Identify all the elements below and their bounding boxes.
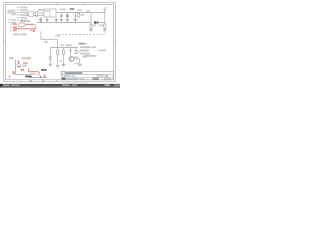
red arrowhead [33,30,35,32]
ground for LED branch [48,64,52,66]
output terminal branch [103,7,106,29]
dark text on bottom wire [25,76,32,78]
capacitor C2 [45,17,48,23]
mid rail label 2 [65,44,72,46]
red annotation underline [13,28,36,30]
red mod tick [17,60,19,63]
top rail wire [56,12,105,14]
red junction dot [18,66,19,67]
connector pin row 1 [17,7,27,9]
status bar dark [0,84,120,88]
fuse label text [38,9,44,11]
connector pin row 6 [17,19,27,21]
bottom row text extra [79,78,84,80]
red wire vertical right [28,68,30,72]
R2 label [59,60,62,62]
notes dash right [98,50,106,52]
component values text above rail 1 [59,9,66,11]
title block outline [61,71,113,79]
transformer label [45,10,49,12]
title block left column divider [62,71,64,79]
lower rail wire [36,22,90,24]
zone tick bottom 1 [29,80,31,82]
wire lower line to transformer [33,15,44,17]
bottom row text [66,78,77,80]
resistor R2 branch [57,48,59,66]
sheet frame inner border [6,5,114,80]
bottom row text 3 [105,78,111,80]
transformer centre divider [49,9,51,17]
wire from upper block down [41,31,58,47]
red mod wire vertical [17,60,19,64]
wire to fuse [33,12,36,14]
wire fuse to transformer [38,12,44,14]
status bar right lighter zone [114,84,120,88]
red dot on wire [40,76,42,78]
capacitor C3 [55,17,58,23]
stub from connector area to lower rail [41,17,43,23]
red hook mark [37,72,39,75]
R1 value text [93,25,96,27]
ground for output branch [103,30,107,32]
capacitor C1 [39,17,42,22]
bottom row divider [91,77,93,80]
note text below red 2 [20,33,26,35]
zone digit 4 [43,80,45,81]
notes text line 1 [79,43,85,45]
bottom row divider 2 [103,77,105,80]
status bar text left 2 [11,85,20,86]
AC input connector J [29,12,33,17]
notes text line 4 [80,53,90,55]
connector pin row 3 [17,12,28,14]
gray note text row above ellipse [20,20,30,22]
regulator U1 on rail [77,13,79,17]
transistor Q1 [69,57,74,62]
bottom left supply label [9,57,13,59]
gray note text right of ellipse [26,24,34,26]
caption smudge below sheet 2 [79,82,88,83]
gray text under red wire [30,73,36,75]
capacitor C4 [66,13,69,23]
title text row [65,72,83,74]
title block row divider 1 [61,73,113,75]
Q1 label [74,56,78,58]
component values text above rail 4 [86,10,91,12]
diode D1 vertical [60,13,63,23]
supply vertical wire [15,59,17,74]
status bar light mark right [105,84,110,86]
component values text above rail 2 [70,8,75,10]
dark label LED1 [41,69,47,71]
connector pin row 2 [17,9,28,11]
capacitor C6 branch [69,48,72,57]
red wire horizontal [29,71,39,73]
red LED D4 [21,69,24,72]
red annotation ellipse [18,23,25,27]
GND label small [84,43,87,45]
bottom row text 2 [93,78,99,80]
status bar dark left block [0,84,2,87]
bottom left note text red [27,57,31,59]
sheet frame outer border [4,3,116,82]
U1 label [81,14,85,16]
connector pin row 5 [17,17,27,19]
mid rail label 1 [60,44,64,46]
diode D2 on lower rail [94,21,105,25]
pin row with red note 3 [10,30,17,32]
test point label [45,41,48,43]
notes text line 2b [92,46,96,48]
zone tick right [114,41,116,43]
connector pin stub 2 [27,15,29,17]
pin row with red note 2 [10,26,17,28]
component values text above rail 3 [77,9,82,11]
red arrow [30,30,34,32]
zone tick top 1 [29,3,31,5]
branch resistor R1 [90,13,92,30]
sheet value text [71,75,75,77]
resistor R3 branch [62,48,64,64]
collector net text [82,56,87,58]
zone digit 3 [31,80,33,81]
notes text line 5 [84,55,97,57]
zone tick left [4,41,6,43]
net label text top-left [8,10,15,12]
pin list lower row 2 [8,22,16,24]
C5 body blob [74,15,76,17]
R4 label [78,51,81,53]
inner box text [98,75,103,76]
status bar text mid 1 [62,85,69,86]
note text below red 1 [13,33,19,35]
ground for R1 [89,30,93,32]
small box R4 [75,48,77,54]
mid block label text [55,35,60,37]
capacitor C5 [74,13,77,23]
notes text line 3 [80,50,89,52]
status bar text left 1 [3,85,10,86]
LED D3 branch [49,48,51,64]
supply bottom wire [16,75,47,78]
dashed block boundary [58,34,104,36]
title block inner box [97,75,104,78]
fuse F1 [36,11,38,16]
gray label text [22,65,26,67]
red label text [23,62,28,64]
far left small marks 2 [8,77,10,78]
caption smudge below sheet 1 [63,82,77,83]
red small mark left [13,71,15,74]
red mark right [44,75,46,77]
label text below wire [11,14,16,16]
connector pin row 4 [17,14,28,16]
emitter wire to ground [73,59,80,64]
Q1 emitter label [74,63,78,65]
D2 value text [99,25,103,27]
zone tick bottom 2 [56,80,58,82]
zone tick top 2 [56,3,58,5]
transformer T1 box [44,9,56,17]
ground for R2 branch [56,66,60,68]
wire under label [7,12,17,14]
sheet label text [64,75,70,77]
check mark [106,75,108,77]
pin row with red note 1 [10,23,17,25]
ground for Q1 emitter [78,64,82,66]
component box K1 [17,64,20,67]
status bar text mid 2 [72,85,78,86]
status bar lower light strip [0,87,120,88]
ground for R3 branch [61,64,65,66]
bottom row bold text [62,78,66,80]
title block row divider 2 [61,76,113,78]
notes text line 2 [80,46,91,48]
bottom left note text gray [22,57,27,59]
mid rail wire [50,47,78,49]
pin list lower row 1 [8,19,16,21]
far left small marks [8,75,10,76]
connector pin stub 1 [27,12,29,14]
red annotation line upper [25,25,35,29]
zone tick top 3 [83,3,85,5]
